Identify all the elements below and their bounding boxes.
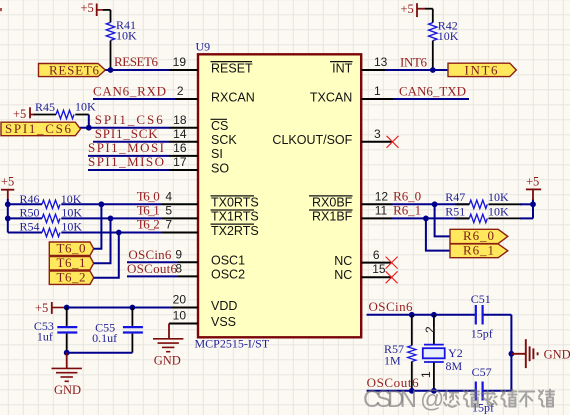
- svg-text:TXCAN: TXCAN: [310, 90, 352, 104]
- junction RESET6: [108, 67, 114, 73]
- svg-text:TX0RTS: TX0RTS: [211, 196, 259, 210]
- no-connect X pin 15: [386, 271, 398, 283]
- watermark chinese glyphs: [444, 390, 554, 407]
- svg-text:20: 20: [173, 293, 187, 307]
- junction R57 top: [409, 312, 415, 318]
- ground GND (C53/C55): [51, 353, 81, 397]
- crystal Y2: [423, 315, 463, 391]
- wire T6_2 row: [61, 232, 162, 234]
- capacitor C53: [34, 308, 77, 353]
- junction R57 bottom: [409, 388, 415, 394]
- junction GND tap: [509, 351, 515, 357]
- svg-text:1uf: 1uf: [37, 329, 53, 343]
- svg-text:R45: R45: [35, 100, 55, 114]
- svg-text:U9: U9: [196, 40, 211, 54]
- port R6_1: [450, 242, 508, 257]
- wire VDD row: [67, 307, 172, 309]
- pin name TX0RTS (overline): [211, 196, 259, 210]
- pin name RESET (overline): [211, 61, 254, 75]
- port INT6: [448, 63, 516, 78]
- power +5 (R42): [401, 2, 427, 17]
- svg-text:Y2: Y2: [448, 346, 463, 360]
- power +5 (R47/R51): [526, 174, 541, 200]
- svg-text:SI: SI: [211, 147, 223, 161]
- pin 11 lead: [361, 217, 392, 219]
- junction T6_1 row: [108, 216, 114, 222]
- wire CAN6_RXD stub: [93, 98, 175, 100]
- svg-text:10K: 10K: [75, 100, 96, 114]
- svg-text:CSDN: CSDN: [363, 386, 417, 413]
- svg-text:NC: NC: [334, 268, 352, 282]
- svg-text:CLKOUT/SOF: CLKOUT/SOF: [272, 133, 352, 147]
- svg-text:CAN6_TXD: CAN6_TXD: [399, 84, 466, 99]
- resistor R45: [34, 100, 96, 119]
- wire T6_1 row: [61, 217, 162, 219]
- junction SPI1_CS6: [86, 125, 92, 131]
- op-amp U9 component body MCP2515: [198, 54, 361, 337]
- pin 2 lead: [175, 98, 198, 100]
- svg-text:R47: R47: [445, 190, 465, 204]
- svg-text:SO: SO: [211, 161, 229, 175]
- power +5 (R46 bank): [1, 174, 14, 200]
- wire R45 to port junction: [88, 115, 90, 128]
- wire T6_0 port to row: [94, 204, 102, 248]
- pin 18 lead: [169, 127, 198, 129]
- junction pullup: [530, 201, 536, 207]
- wire SPI1_MOSI stub: [88, 155, 169, 157]
- wire T6_2 port to row: [94, 233, 119, 278]
- svg-text:R6_0: R6_0: [463, 228, 494, 243]
- svg-text:1: 1: [374, 84, 381, 98]
- svg-text:RESET6: RESET6: [114, 54, 159, 69]
- capacitor C55: [92, 308, 143, 353]
- svg-text:14: 14: [173, 127, 187, 141]
- pin name RX0BF (overline): [309, 196, 353, 210]
- svg-text:R51: R51: [445, 205, 465, 219]
- pin 7 lead: [162, 232, 198, 234]
- svg-text:T6_0: T6_0: [137, 188, 160, 203]
- port RESET6: [39, 63, 106, 78]
- pin 16 lead: [169, 155, 198, 157]
- wire +5 vertical bank: [7, 199, 9, 233]
- svg-text:VSS: VSS: [211, 315, 236, 329]
- svg-text:2: 2: [177, 84, 184, 98]
- port T6_1: [49, 255, 93, 270]
- svg-text:+5: +5: [526, 174, 539, 188]
- svg-text:SPI1_CS6: SPI1_CS6: [5, 121, 72, 136]
- svg-text:T6_1: T6_1: [57, 255, 86, 270]
- svg-text:TX1RTS: TX1RTS: [211, 210, 259, 224]
- junction INT6: [430, 67, 436, 73]
- svg-text:INT6: INT6: [465, 63, 499, 78]
- svg-text:R54: R54: [20, 220, 40, 234]
- svg-text:+5: +5: [401, 2, 414, 16]
- svg-text:RESET6: RESET6: [49, 63, 100, 78]
- power +5 (R41): [81, 1, 105, 16]
- svg-text:SPI1_SCK: SPI1_SCK: [95, 126, 159, 141]
- svg-text:+5: +5: [1, 174, 14, 188]
- capacitor C57: [472, 365, 494, 415]
- pin 9 lead: [178, 261, 198, 263]
- svg-text:C57: C57: [472, 365, 492, 379]
- svg-text:10: 10: [173, 309, 187, 323]
- svg-text:OSC2: OSC2: [211, 268, 245, 282]
- junction R6_1 tap: [423, 216, 429, 222]
- junction T6_2 row: [116, 230, 122, 236]
- svg-text:T6_1: T6_1: [137, 203, 160, 218]
- svg-text:T6_0: T6_0: [57, 240, 86, 255]
- svg-text:0.1uf: 0.1uf: [92, 331, 117, 345]
- svg-text:16: 16: [173, 141, 187, 155]
- svg-text:+5: +5: [13, 107, 26, 121]
- resistor R42: [425, 9, 459, 70]
- resistor R46: [8, 192, 82, 209]
- junction Y2 top: [431, 312, 437, 318]
- svg-text:OSC1: OSC1: [211, 254, 245, 268]
- capacitor C51: [471, 292, 493, 341]
- wire T6_1 port to row: [94, 218, 111, 263]
- pin 19 lead: [169, 69, 198, 71]
- pin name INT (overline): [330, 61, 353, 75]
- svg-text:TX2RTS: TX2RTS: [211, 224, 259, 238]
- junction T6_0 row: [99, 201, 105, 207]
- svg-text:OSCin6: OSCin6: [128, 247, 172, 262]
- resistor R54: [8, 220, 83, 237]
- wire SPI1_MISO stub: [88, 169, 169, 171]
- pin 17 lead: [169, 169, 198, 171]
- svg-text:R6_0: R6_0: [393, 188, 421, 203]
- svg-text:8M: 8M: [446, 359, 463, 373]
- junction bank row2: [5, 216, 11, 222]
- wire OSCout6 stub (pin 8): [127, 275, 178, 277]
- wire OSCin6 stub (pin 9): [127, 261, 178, 263]
- no-connect X pin 6: [386, 257, 398, 269]
- svg-text:VDD: VDD: [211, 299, 237, 313]
- svg-text:T6_2: T6_2: [57, 269, 86, 284]
- pin 13 lead: [361, 69, 385, 71]
- port T6_2: [49, 269, 93, 284]
- svg-text:17: 17: [173, 155, 187, 169]
- svg-text:@: @: [420, 386, 444, 413]
- wire OSCout6 crystal row: [367, 390, 475, 392]
- resistor R51: [392, 205, 533, 223]
- pin 15 lead: [361, 276, 392, 278]
- svg-text:9: 9: [175, 248, 182, 262]
- svg-text:INT6: INT6: [400, 54, 428, 69]
- wire right vertical: [510, 315, 512, 391]
- junction C55 top: [130, 305, 136, 311]
- svg-text:R6_1: R6_1: [463, 242, 494, 257]
- pin 20 lead: [172, 307, 198, 309]
- pin 1 lead: [361, 98, 393, 100]
- power +5 (VDD): [35, 301, 67, 315]
- svg-text:SCK: SCK: [211, 133, 237, 147]
- svg-text:R46: R46: [20, 192, 40, 206]
- wire SPI1_CS6 row: [80, 127, 169, 129]
- svg-text:5: 5: [165, 204, 172, 218]
- svg-text:CAN6_RXD: CAN6_RXD: [93, 84, 166, 99]
- stray red tick at left edge: [0, 8, 2, 11]
- pin 14 lead: [169, 141, 198, 143]
- svg-text:T6_2: T6_2: [137, 217, 160, 232]
- svg-text:SPI1_CS6: SPI1_CS6: [95, 112, 164, 127]
- pin name RX1BF (overline): [309, 210, 353, 224]
- wire C55 bottom to C53 bottom: [67, 352, 133, 354]
- wire OSCin6 crystal row: [367, 314, 475, 316]
- pin 8 lead: [178, 275, 198, 277]
- svg-text:10K: 10K: [438, 29, 459, 43]
- pin 6 lead: [361, 262, 392, 264]
- wire INT6 row: [385, 69, 448, 71]
- svg-text:MCP2515-I/ST: MCP2515-I/ST: [195, 337, 270, 351]
- wire R6_1 port link: [426, 218, 450, 250]
- svg-text:1: 1: [419, 371, 433, 378]
- pin name TX1RTS (overline): [211, 210, 259, 224]
- svg-text:GND: GND: [154, 353, 181, 367]
- svg-text:11: 11: [375, 204, 388, 218]
- svg-text:NC: NC: [334, 254, 352, 268]
- svg-text:GND: GND: [54, 383, 81, 397]
- svg-text:+5: +5: [35, 301, 48, 315]
- svg-text:6: 6: [373, 248, 380, 262]
- port T6_0: [49, 240, 93, 255]
- resistor R50: [8, 206, 83, 223]
- resistor R47: [392, 190, 533, 209]
- svg-text:19: 19: [173, 55, 187, 69]
- wire SPI1_SCK stub: [93, 141, 169, 143]
- no-connect X pin 3: [387, 136, 399, 148]
- ground GND (VSS): [153, 324, 183, 368]
- svg-text:OSCin6: OSCin6: [369, 299, 414, 314]
- junction GND C53: [64, 350, 70, 356]
- svg-text:GND: GND: [544, 347, 570, 361]
- svg-text:7: 7: [165, 218, 172, 232]
- svg-text:CS: CS: [211, 119, 228, 133]
- wire T6_0 row: [61, 203, 162, 205]
- pin 10 lead: [169, 323, 198, 325]
- svg-text:OSCout6: OSCout6: [127, 261, 178, 276]
- svg-text:3: 3: [374, 127, 381, 141]
- pin 3 lead: [361, 141, 393, 143]
- resistor R57: [384, 315, 416, 391]
- svg-text:10K: 10K: [116, 29, 137, 43]
- svg-text:15pf: 15pf: [471, 327, 493, 341]
- svg-text:R6_1: R6_1: [393, 203, 421, 218]
- wire CAN6_TXD stub: [393, 98, 469, 100]
- junction R6_0 tap: [432, 201, 438, 207]
- port SPI1_CS6: [1, 121, 81, 136]
- ground GND (crystal, rotated): [511, 339, 537, 368]
- wire pullup vertical: [532, 199, 534, 218]
- wire C51 to corner: [484, 314, 512, 316]
- svg-text:10K: 10K: [488, 205, 509, 219]
- svg-text:RX0BF: RX0BF: [312, 196, 353, 210]
- power +5 (R45): [13, 107, 35, 121]
- svg-text:15: 15: [372, 262, 386, 276]
- wire C57 to corner: [484, 390, 512, 392]
- svg-text:INT: INT: [332, 61, 353, 75]
- svg-text:+5: +5: [81, 1, 94, 15]
- svg-text:C51: C51: [471, 292, 491, 306]
- port R6_0: [450, 228, 508, 243]
- svg-text:13: 13: [374, 55, 388, 69]
- junction C53 top: [64, 305, 70, 311]
- wire R6_0 port link: [435, 204, 450, 236]
- svg-text:12: 12: [375, 190, 389, 204]
- wire RESET6 row: [105, 69, 170, 71]
- svg-text:2: 2: [423, 326, 437, 333]
- junction bank row1: [5, 201, 11, 207]
- svg-text:10K: 10K: [488, 190, 509, 204]
- junction Y2 bottom: [431, 388, 437, 394]
- svg-text:RESET: RESET: [211, 61, 253, 75]
- svg-text:18: 18: [173, 113, 187, 127]
- svg-text:RXCAN: RXCAN: [211, 90, 255, 104]
- pin name TX2RTS (overline): [211, 224, 259, 238]
- pin name CS (overline): [211, 119, 229, 133]
- svg-text:RX1BF: RX1BF: [312, 210, 353, 224]
- pin 4 lead: [162, 203, 198, 205]
- pin 5 lead: [162, 217, 198, 219]
- svg-text:4: 4: [165, 190, 172, 204]
- svg-text:10K: 10K: [61, 220, 82, 234]
- svg-text:R50: R50: [20, 206, 40, 220]
- resistor R41: [103, 10, 137, 70]
- svg-text:1M: 1M: [384, 354, 401, 368]
- pin 12 lead: [361, 203, 392, 205]
